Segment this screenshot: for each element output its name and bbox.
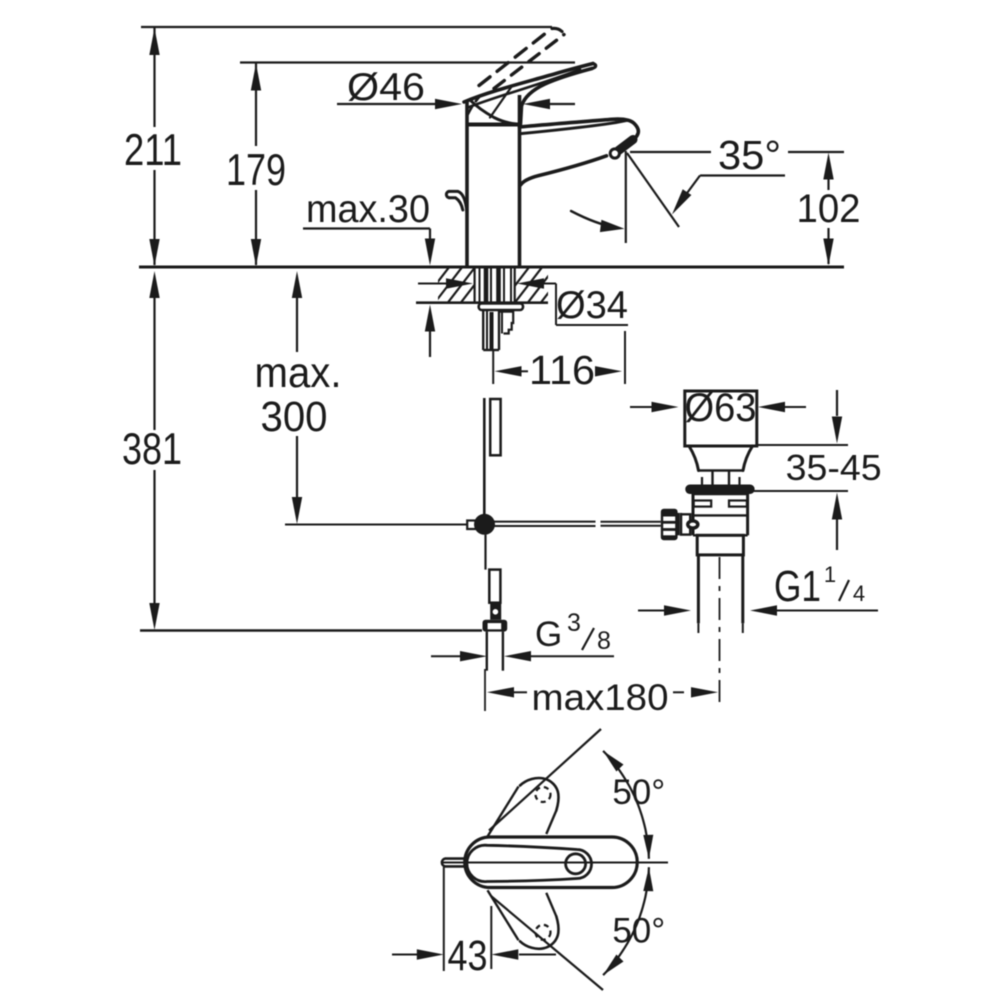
svg-text:43: 43 [448,933,488,980]
svg-text:381: 381 [122,425,182,474]
svg-text:G1: G1 [774,562,821,611]
svg-text:Ø34: Ø34 [556,284,628,327]
svg-text:116: 116 [529,347,595,393]
svg-text:300: 300 [261,394,328,441]
svg-text:max180: max180 [532,677,669,718]
svg-text:G: G [535,615,562,654]
svg-text:50°: 50° [612,773,665,812]
svg-text:max.: max. [255,350,342,397]
svg-text:50°: 50° [612,912,665,951]
svg-text:3: 3 [567,609,581,637]
svg-text:102: 102 [797,187,861,231]
svg-text:4: 4 [853,581,865,606]
svg-text:179: 179 [226,146,286,195]
svg-text:Ø63: Ø63 [685,386,757,430]
svg-text:1: 1 [824,562,836,587]
svg-text:max.30: max.30 [306,188,430,231]
svg-text:Ø46: Ø46 [347,66,425,109]
svg-text:211: 211 [124,126,182,175]
svg-text:8: 8 [597,627,611,655]
svg-text:35-45: 35-45 [786,447,882,488]
svg-text:35°: 35° [718,132,781,178]
